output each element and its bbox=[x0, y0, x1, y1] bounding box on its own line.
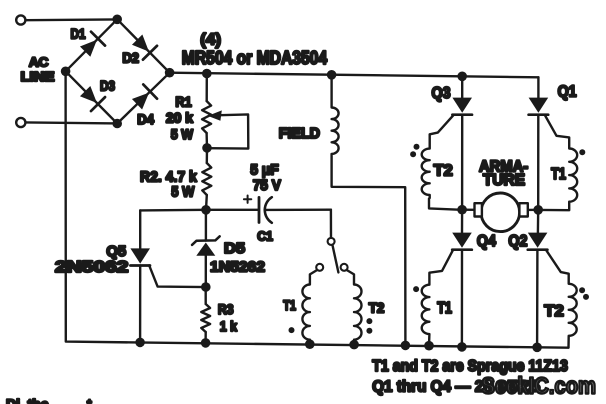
svg-text:R1: R1 bbox=[175, 93, 191, 109]
svg-text:SeekIC.com: SeekIC.com bbox=[482, 372, 597, 398]
svg-text:MR504 or MDA3504: MR504 or MDA3504 bbox=[182, 48, 327, 68]
svg-text:LINE: LINE bbox=[21, 69, 55, 84]
svg-text:1N5262: 1N5262 bbox=[210, 259, 265, 276]
svg-text:T2: T2 bbox=[434, 162, 453, 179]
svg-text:1 k: 1 k bbox=[220, 318, 237, 334]
svg-text:Di: Di bbox=[6, 396, 20, 404]
svg-text:the: the bbox=[28, 396, 49, 404]
svg-text:D2: D2 bbox=[122, 50, 139, 66]
svg-text:Q1: Q1 bbox=[558, 83, 577, 100]
svg-text:Q2: Q2 bbox=[508, 233, 527, 250]
svg-text:5 W: 5 W bbox=[171, 184, 195, 201]
svg-text:T1: T1 bbox=[437, 300, 452, 317]
svg-text:Q4: Q4 bbox=[477, 233, 496, 250]
svg-text:2N5062: 2N5062 bbox=[55, 259, 128, 276]
svg-text:C1: C1 bbox=[257, 229, 273, 244]
svg-text:Q1 thru Q4 — 2N: Q1 thru Q4 — 2N bbox=[372, 378, 494, 395]
svg-text:5 W: 5 W bbox=[171, 126, 194, 142]
svg-text:20 k: 20 k bbox=[166, 110, 193, 126]
svg-text:D4: D4 bbox=[137, 111, 154, 127]
svg-text:5 μF: 5 μF bbox=[250, 161, 279, 178]
svg-text:R3: R3 bbox=[218, 301, 234, 317]
svg-text:D1: D1 bbox=[71, 26, 86, 42]
svg-text:T1: T1 bbox=[283, 298, 296, 313]
svg-text:TURE: TURE bbox=[483, 172, 525, 189]
svg-text:T2: T2 bbox=[544, 303, 564, 320]
svg-text:Q3: Q3 bbox=[432, 85, 451, 102]
svg-text:D3: D3 bbox=[100, 78, 115, 94]
svg-text:AC: AC bbox=[29, 55, 49, 70]
svg-text:T2: T2 bbox=[369, 301, 385, 316]
svg-text:(4): (4) bbox=[200, 32, 221, 49]
svg-text:T1: T1 bbox=[551, 166, 566, 183]
svg-text:Q5: Q5 bbox=[106, 243, 126, 260]
svg-text:t: t bbox=[87, 396, 92, 404]
svg-text:FIELD: FIELD bbox=[279, 125, 320, 142]
svg-text:D5: D5 bbox=[224, 240, 245, 257]
svg-text:75 V: 75 V bbox=[253, 177, 281, 194]
